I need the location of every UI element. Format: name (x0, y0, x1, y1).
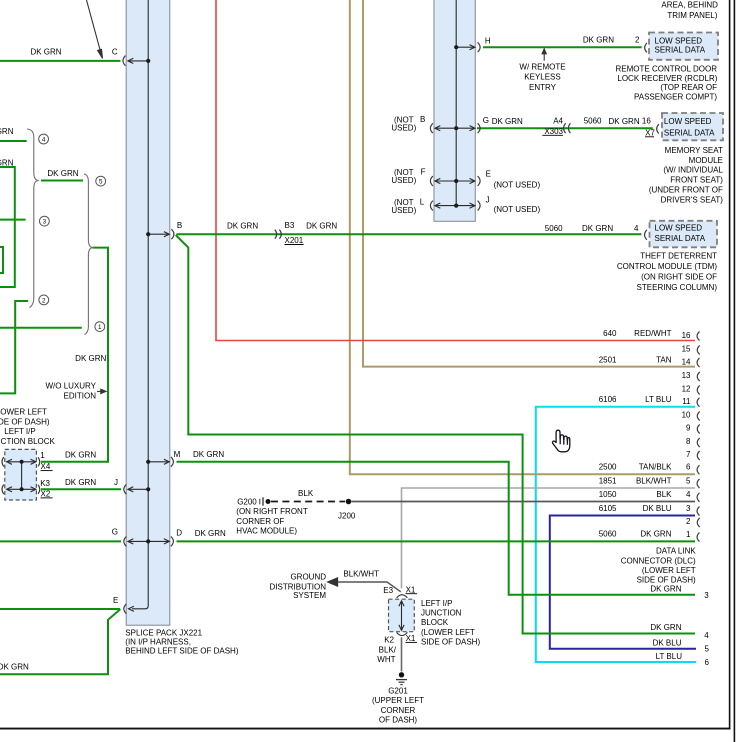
svg-text:X1: X1 (406, 634, 416, 643)
svg-text:EDITION: EDITION (64, 391, 97, 400)
svg-text:8: 8 (686, 437, 691, 446)
svg-text:SERIAL DATA: SERIAL DATA (655, 234, 706, 243)
svg-text:X1: X1 (406, 585, 416, 594)
svg-text:4: 4 (704, 631, 709, 640)
svg-text:X7: X7 (645, 128, 655, 137)
svg-text:6106: 6106 (599, 395, 617, 404)
svg-text:9: 9 (686, 423, 691, 432)
svg-text:SIDE OF DASH): SIDE OF DASH) (421, 638, 480, 647)
svg-text:DK GRN: DK GRN (650, 585, 681, 594)
svg-text:DK GRN: DK GRN (193, 450, 224, 459)
svg-text:5060: 5060 (545, 224, 563, 233)
svg-text:CORNER OF: CORNER OF (236, 517, 284, 526)
svg-text:B: B (420, 115, 425, 124)
svg-text:10: 10 (682, 410, 691, 419)
svg-text:SYSTEM: SYSTEM (293, 591, 326, 600)
svg-text:DK GRN: DK GRN (640, 530, 671, 539)
svg-text:M: M (174, 450, 181, 459)
svg-text:SPLICE PACK JX221: SPLICE PACK JX221 (125, 628, 202, 637)
svg-text:E: E (486, 170, 491, 179)
svg-text:W/ REMOTE: W/ REMOTE (519, 62, 565, 71)
svg-text:DK GRN: DK GRN (0, 662, 29, 671)
svg-text:5060: 5060 (584, 117, 602, 126)
svg-text:(NOT USED): (NOT USED) (494, 205, 541, 214)
svg-text:1050: 1050 (599, 490, 617, 499)
svg-text:6: 6 (705, 658, 710, 667)
svg-text:E3: E3 (383, 586, 393, 595)
svg-text:14: 14 (682, 357, 691, 366)
svg-text:SIDE OF DASH): SIDE OF DASH) (637, 576, 696, 585)
svg-text:2500: 2500 (599, 463, 617, 472)
svg-text:2: 2 (686, 517, 691, 526)
svg-text:7: 7 (686, 450, 691, 459)
svg-text:DK GRN: DK GRN (195, 529, 226, 538)
svg-text:X303: X303 (544, 127, 563, 136)
svg-text:USED): USED) (391, 206, 416, 215)
svg-text:(UNDER FRONT OF: (UNDER FRONT OF (649, 186, 723, 195)
svg-text:(LOWER LEFT: (LOWER LEFT (421, 628, 475, 637)
svg-text:1: 1 (686, 530, 691, 539)
svg-text:LOCK RECEIVER (RCDLR): LOCK RECEIVER (RCDLR) (617, 74, 717, 83)
svg-text:4: 4 (42, 136, 46, 143)
svg-text:CONNECTOR (DLC): CONNECTOR (DLC) (621, 556, 696, 565)
svg-text:DATA LINK: DATA LINK (656, 546, 696, 555)
svg-text:G: G (483, 116, 489, 125)
svg-text:11: 11 (682, 397, 691, 406)
svg-text:DK GRN: DK GRN (227, 221, 258, 230)
svg-text:C: C (112, 47, 118, 56)
svg-text:SIDE OF DASH): SIDE OF DASH) (0, 417, 50, 426)
svg-text:5: 5 (705, 645, 710, 654)
svg-text:5: 5 (99, 179, 103, 186)
svg-text:AREA, BEHIND: AREA, BEHIND (661, 0, 718, 9)
svg-text:STEERING COLUMN): STEERING COLUMN) (637, 283, 718, 292)
svg-text:(IN I/P HARNESS,: (IN I/P HARNESS, (125, 637, 191, 646)
svg-text:JUNCTION BLOCK: JUNCTION BLOCK (0, 437, 56, 446)
svg-text:LOW SPEED: LOW SPEED (664, 117, 712, 126)
svg-text:640: 640 (603, 329, 617, 338)
svg-text:JUNCTION: JUNCTION (421, 609, 462, 618)
svg-text:SERIAL DATA: SERIAL DATA (664, 128, 715, 137)
svg-text:3: 3 (43, 219, 47, 226)
svg-text:13: 13 (682, 371, 691, 380)
svg-text:3: 3 (686, 504, 691, 513)
svg-text:BLK/WHT: BLK/WHT (636, 476, 672, 485)
svg-text:GROUND: GROUND (290, 573, 326, 582)
svg-text:BEHIND LEFT SIDE OF DASH): BEHIND LEFT SIDE OF DASH) (125, 646, 239, 655)
svg-text:J: J (486, 196, 490, 205)
svg-text:WHT: WHT (377, 655, 395, 664)
svg-text:F: F (421, 167, 426, 176)
svg-text:BLOCK: BLOCK (421, 618, 449, 627)
svg-text:DK GRN: DK GRN (0, 158, 14, 167)
svg-text:(UPPER LEFT: (UPPER LEFT (372, 696, 424, 705)
svg-text:DK GRN: DK GRN (47, 169, 78, 178)
svg-text:(NOT USED): (NOT USED) (494, 181, 541, 190)
svg-text:X201: X201 (285, 236, 304, 245)
svg-text:TAN: TAN (656, 355, 672, 364)
svg-text:(LOWER LEFT: (LOWER LEFT (642, 566, 696, 575)
svg-text:LEFT I/P: LEFT I/P (4, 427, 35, 436)
svg-text:(ON RIGHT FRONT: (ON RIGHT FRONT (236, 507, 308, 516)
svg-text:1851: 1851 (599, 476, 617, 485)
svg-text:DK GRN: DK GRN (492, 117, 523, 126)
svg-text:X4: X4 (41, 462, 51, 471)
svg-text:USED): USED) (391, 123, 416, 132)
svg-text:G200: G200 (237, 497, 257, 506)
svg-text:BLK: BLK (656, 490, 672, 499)
svg-text:MEMORY SEAT: MEMORY SEAT (665, 146, 723, 155)
svg-text:DRIVER'S SEAT): DRIVER'S SEAT) (661, 195, 724, 204)
svg-text:BLK/: BLK/ (379, 645, 397, 654)
svg-text:DK BLU: DK BLU (653, 639, 682, 648)
svg-text:X2: X2 (41, 490, 51, 499)
svg-text:DK GRN: DK GRN (609, 117, 640, 126)
svg-text:G201: G201 (388, 687, 408, 696)
svg-text:DK GRN: DK GRN (65, 478, 96, 487)
svg-text:6: 6 (686, 463, 691, 472)
svg-text:K3: K3 (40, 479, 50, 488)
svg-text:TRIM PANEL): TRIM PANEL) (667, 11, 717, 20)
svg-text:(ON RIGHT SIDE OF: (ON RIGHT SIDE OF (641, 273, 717, 282)
svg-text:DK GRN: DK GRN (306, 221, 337, 230)
svg-text:BLK/WHT: BLK/WHT (343, 570, 379, 579)
svg-text:HVAC MODULE): HVAC MODULE) (236, 527, 297, 536)
svg-text:PASSENGER COMPT): PASSENGER COMPT) (634, 93, 717, 102)
svg-text:LT BLU: LT BLU (656, 652, 683, 661)
svg-text:B: B (177, 221, 182, 230)
svg-text:DK GRN: DK GRN (650, 623, 681, 632)
svg-text:SERIAL DATA: SERIAL DATA (655, 46, 706, 55)
svg-text:6105: 6105 (599, 504, 617, 513)
svg-text:5060: 5060 (599, 530, 617, 539)
svg-text:FRONT SEAT): FRONT SEAT) (670, 176, 723, 185)
svg-text:2: 2 (42, 297, 46, 304)
svg-text:J200: J200 (338, 511, 356, 520)
svg-text:D: D (176, 528, 182, 537)
svg-text:1: 1 (98, 324, 102, 331)
svg-text:L: L (420, 198, 425, 207)
svg-text:(TOP REAR OF: (TOP REAR OF (660, 83, 717, 92)
svg-text:2: 2 (635, 35, 640, 44)
svg-text:3: 3 (704, 591, 709, 600)
svg-text:B3: B3 (285, 221, 295, 230)
svg-text:KEYLESS: KEYLESS (524, 73, 560, 82)
svg-text:16: 16 (642, 117, 651, 126)
svg-text:LT BLU: LT BLU (645, 395, 672, 404)
svg-text:OF DASH): OF DASH) (379, 715, 418, 724)
svg-text:DISTRIBUTION: DISTRIBUTION (270, 582, 327, 591)
svg-text:DK GRN: DK GRN (582, 224, 613, 233)
svg-text:16: 16 (682, 331, 691, 340)
svg-text:W/O LUXURY: W/O LUXURY (45, 382, 96, 391)
svg-text:J: J (114, 478, 118, 487)
svg-text:BLK: BLK (298, 489, 314, 498)
svg-text:DK GRN: DK GRN (0, 127, 14, 136)
svg-text:K2: K2 (384, 635, 394, 644)
svg-text:RED/WHT: RED/WHT (634, 329, 671, 338)
svg-text:DK GRN: DK GRN (30, 47, 61, 56)
svg-text:E: E (113, 596, 118, 605)
svg-text:CORNER: CORNER (381, 706, 416, 715)
svg-text:LOW SPEED: LOW SPEED (655, 37, 703, 46)
svg-text:12: 12 (682, 384, 691, 393)
svg-text:DK BLU: DK BLU (643, 504, 672, 513)
svg-text:LOW SPEED: LOW SPEED (655, 223, 703, 232)
svg-text:2501: 2501 (599, 355, 617, 364)
svg-text:H: H (485, 37, 491, 46)
svg-text:THEFT DETERRENT: THEFT DETERRENT (640, 251, 717, 260)
svg-text:(W/ INDIVIDUAL: (W/ INDIVIDUAL (663, 166, 723, 175)
svg-text:1: 1 (40, 451, 45, 460)
svg-text:DK GRN: DK GRN (75, 354, 106, 363)
svg-text:MODULE: MODULE (689, 156, 723, 165)
svg-text:(LOWER LEFT: (LOWER LEFT (0, 408, 47, 417)
svg-text:4: 4 (634, 224, 639, 233)
svg-text:DK GRN: DK GRN (65, 450, 96, 459)
svg-text:15: 15 (682, 344, 691, 353)
svg-text:G: G (112, 528, 118, 537)
svg-text:A4: A4 (553, 117, 563, 126)
svg-text:4: 4 (686, 490, 691, 499)
svg-text:DK GRN: DK GRN (583, 35, 614, 44)
svg-text:CONTROL MODULE (TDM): CONTROL MODULE (TDM) (617, 262, 717, 271)
svg-text:REMOTE CONTROL DOOR: REMOTE CONTROL DOOR (616, 65, 718, 74)
svg-text:ENTRY: ENTRY (529, 83, 557, 92)
svg-text:USED): USED) (391, 176, 416, 185)
svg-text:TAN/BLK: TAN/BLK (639, 463, 672, 472)
svg-text:LEFT I/P: LEFT I/P (421, 599, 452, 608)
svg-text:5: 5 (686, 476, 691, 485)
